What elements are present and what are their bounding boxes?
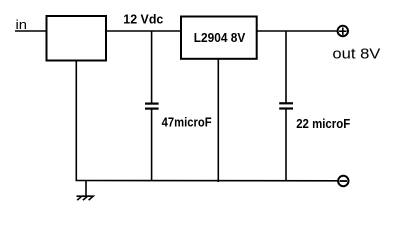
svg-text:47microF: 47microF [162, 115, 212, 130]
terminal minus (- output) [338, 176, 348, 186]
input block (unlabeled box) [47, 16, 107, 61]
wire input to block [15, 30, 47, 32]
capacitor C1 plates [145, 104, 159, 109]
wire block to regulator (12 Vdc net) [106, 30, 181, 32]
regulator U1 box [181, 17, 257, 59]
capacitor C2 plates [279, 103, 293, 108]
wire capacitor C1 top branch [151, 31, 153, 103]
svg-text:out 8V: out 8V [332, 46, 380, 63]
node in (input label) [16, 17, 28, 32]
label 22 microF [296, 116, 350, 131]
svg-text:22 microF: 22 microF [296, 116, 350, 131]
wire capacitor C2 top branch [285, 31, 287, 103]
svg-text:in: in [16, 17, 28, 32]
label 47microF [162, 115, 212, 130]
label 12 Vdc [123, 11, 163, 26]
terminal plus (+ output) [338, 26, 348, 36]
wire regulator output to plus terminal [257, 30, 338, 32]
svg-text:L2904 8V: L2904 8V [194, 30, 246, 45]
wire bottom rail [76, 180, 339, 182]
wire capacitor C1 bottom [151, 110, 153, 181]
wire input block ground pin [75, 61, 77, 181]
label L2904 8V [194, 30, 246, 45]
wire regulator ground pin [217, 59, 219, 182]
ground symbol (chassis ground hatches) [77, 196, 94, 200]
wire ground stub [85, 181, 87, 197]
label out 8V [332, 46, 380, 63]
svg-text:12 Vdc: 12 Vdc [123, 11, 163, 26]
wire capacitor C2 bottom [285, 110, 287, 181]
